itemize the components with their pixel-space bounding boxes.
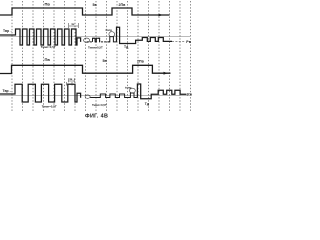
svg-text:ФИГ. 4В: ФИГ. 4В — [85, 113, 108, 119]
svg-text:Тимп=0,5Т: Тимп=0,5Т — [92, 103, 107, 107]
svg-text:tв: tв — [70, 77, 73, 81]
svg-text:Твр→: Твр→ — [3, 89, 13, 93]
row 4 tall pulse and low step — [137, 84, 186, 99]
row 4 small oval after burst — [85, 95, 90, 98]
svg-text:tопр: tопр — [106, 28, 113, 32]
row 2 axis line — [0, 36, 190, 38]
row 2 small pulse in circle — [108, 37, 116, 42]
svg-text:Тимп=0,5Т: Тимп=0,5Т — [42, 105, 57, 109]
svg-text:Твр→: Твр→ — [3, 29, 13, 33]
svg-text:Тимп=0,5Т: Тимп=0,5Т — [88, 45, 103, 49]
svg-text:Пв: Пв — [45, 2, 51, 7]
row 3 t_v dimension below — [69, 78, 75, 82]
row 2 tall pulse and low step — [117, 27, 173, 43]
row 3 waveform trace — [0, 65, 171, 73]
svg-text:tи: tи — [72, 22, 75, 26]
row 2 small oval after burst — [84, 38, 90, 42]
row 2 burst waveform — [0, 29, 81, 45]
row 2 circle annotation — [109, 32, 115, 37]
row 2 t_i dimension above burst tail — [69, 23, 79, 28]
dashed vertical grid lines — [12, 1, 191, 111]
svg-text:Тимп=0,5Т: Тимп=0,5Т — [41, 45, 56, 49]
svg-text:Рв: Рв — [187, 93, 192, 97]
row 2 dashed baseline with blips — [87, 38, 110, 42]
row 3 arrowhead — [164, 72, 169, 75]
row 4 axis line — [0, 95, 190, 97]
row 4 t_i dimension above burst tail — [67, 82, 73, 86]
row 4 circle annotation — [130, 88, 136, 93]
row 1 waveform trace — [0, 8, 170, 15]
svg-text:2Пв: 2Пв — [137, 59, 145, 63]
row 1 arrowhead — [159, 14, 164, 17]
row 2 trailing faint dashed line — [172, 40, 185, 42]
svg-text:2Пв: 2Пв — [119, 3, 127, 7]
row 4 baseline with blips — [90, 94, 129, 98]
svg-text:Пв: Пв — [45, 57, 51, 62]
svg-text:tопр: tопр — [125, 86, 132, 90]
svg-text:Рв: Рв — [186, 40, 191, 44]
row 4 small pulse in circle — [129, 93, 137, 98]
row 4 burst waveform — [0, 84, 81, 102]
